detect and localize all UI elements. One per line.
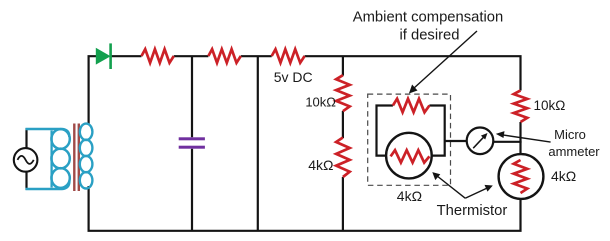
transformer T1 secondary loop 4 <box>80 172 93 188</box>
wire bottom rail <box>89 186 521 231</box>
wire top rail segment R1 to R2 <box>174 55 209 57</box>
wire top rail <box>89 56 96 125</box>
resistor R2 <box>208 49 240 63</box>
dashed box ambient compensation <box>368 94 451 185</box>
thermistor TH2 circle right <box>499 154 544 199</box>
capacitor C1 <box>179 137 205 140</box>
transformer T1 secondary loop 3 <box>80 156 93 172</box>
arrow thermistor pointer left <box>437 176 466 199</box>
svg-text:Thermistor: Thermistor <box>437 203 508 219</box>
svg-text:5v DC: 5v DC <box>274 69 313 85</box>
wire top rail segment R3 to right corner <box>305 56 521 90</box>
diode D1 <box>96 48 111 65</box>
transformer T1 secondary loop 2 <box>80 140 93 156</box>
micro ammeter M1 <box>467 128 494 155</box>
wire AC source bottom lead <box>25 172 27 190</box>
svg-text:4kΩ: 4kΩ <box>308 157 333 173</box>
wire right branch between R6 and ammeter junction <box>519 122 521 155</box>
wire ammeter to right branch <box>494 141 522 143</box>
wire divider branch bottom <box>342 177 344 231</box>
wire divider branch top <box>342 56 344 75</box>
AC source V1 <box>14 148 38 172</box>
resistor R1 <box>142 49 174 63</box>
svg-text:10kΩ: 10kΩ <box>305 95 336 110</box>
transformer T1 core <box>73 124 75 192</box>
resistor R8 bridge top <box>393 99 430 113</box>
resistor R6 10k right <box>514 91 528 123</box>
transformer T1 primary loop 3 <box>51 168 69 188</box>
resistor R4 10k left <box>336 75 350 111</box>
wire bridge to ammeter <box>445 140 467 142</box>
arrow micro ammeter pointer <box>501 135 551 142</box>
wire capacitor branch lower <box>191 149 193 231</box>
transformer T1 primary lead top <box>26 129 70 137</box>
resistor R5 4k left <box>336 138 350 178</box>
wire top rail segment diode to R1 <box>112 55 142 57</box>
wire divider branch middle <box>342 111 344 138</box>
transformer T1 secondary loop 1 <box>80 124 93 140</box>
svg-text:Ambient compensation: Ambient compensation <box>353 10 504 26</box>
thermistor TH1 circle <box>386 133 432 179</box>
svg-text:Micro: Micro <box>554 127 586 142</box>
svg-text:10kΩ: 10kΩ <box>534 98 566 113</box>
transformer T1 primary loop 1 <box>51 129 69 149</box>
transformer T1 primary loop 2 <box>51 149 69 169</box>
transformer T1 primary return wire <box>50 131 52 188</box>
wire capacitor branch upper <box>191 56 193 137</box>
svg-text:ammeter: ammeter <box>548 144 600 159</box>
arrow thermistor pointer right <box>465 188 488 198</box>
resistor R7 inside thermistor TH2 <box>514 160 528 193</box>
resistor R3 5v DC <box>272 49 305 63</box>
resistor R9 inside thermistor TH1 <box>391 150 430 162</box>
wire middle branch <box>257 56 259 231</box>
svg-text:if desired: if desired <box>399 28 459 44</box>
wire top rail segment R2 to R3 <box>241 55 272 57</box>
wire AC source top lead <box>25 128 27 148</box>
svg-text:4kΩ: 4kΩ <box>397 188 422 204</box>
svg-text:4kΩ: 4kΩ <box>551 168 576 184</box>
arrow ambient compensation pointer <box>414 31 478 89</box>
transformer T1 primary lead bottom <box>26 181 70 189</box>
bridge rectangle wires <box>377 106 393 156</box>
